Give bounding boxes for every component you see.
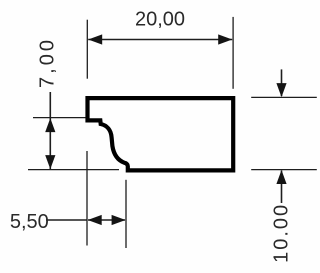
dimension 20,00: right extension line	[232, 17, 234, 89]
dimension 7,00: dimension line	[49, 92, 51, 169]
dimension 10.00: top extension line	[251, 96, 317, 98]
dimension 20,00: right arrowhead	[218, 34, 232, 44]
dimension 7,00: bottom extension line	[28, 169, 119, 171]
dimension 7,00: top extension line	[33, 117, 86, 119]
svg-text:10.00: 10.00	[271, 203, 293, 263]
dimension 5,50: left arrowhead	[88, 215, 102, 225]
dimension 5,50: leader line	[46, 219, 87, 221]
dimension 10.00: top arrow shaft	[281, 69, 283, 96]
dimension 5,50: right extension line	[125, 180, 127, 248]
dimension 10.00: bottom arrow shaft	[281, 171, 283, 204]
dimension 5,50: right arrowhead	[112, 215, 126, 225]
dimension 20,00: left arrowhead	[88, 34, 102, 44]
dimension 20,00: left extension line	[86, 20, 88, 79]
dimension 5,50: inner shaft	[88, 219, 125, 221]
dimension 20,00: dimension line	[88, 39, 232, 41]
svg-text:5,50: 5,50	[10, 211, 49, 233]
dimension 5,50: left extension line	[86, 151, 88, 246]
svg-text:20,00: 20,00	[135, 9, 185, 31]
svg-text:7,00: 7,00	[37, 37, 59, 88]
dimension 10.00: bottom extension line	[251, 169, 317, 171]
moulding profile outline	[88, 98, 234, 170]
dimension 7,00: up arrowhead	[45, 118, 55, 132]
dimension 7,00: down arrowhead	[45, 155, 55, 169]
dimension 10.00: up arrowhead	[276, 170, 286, 184]
dimension 10.00: down arrowhead	[276, 83, 286, 97]
